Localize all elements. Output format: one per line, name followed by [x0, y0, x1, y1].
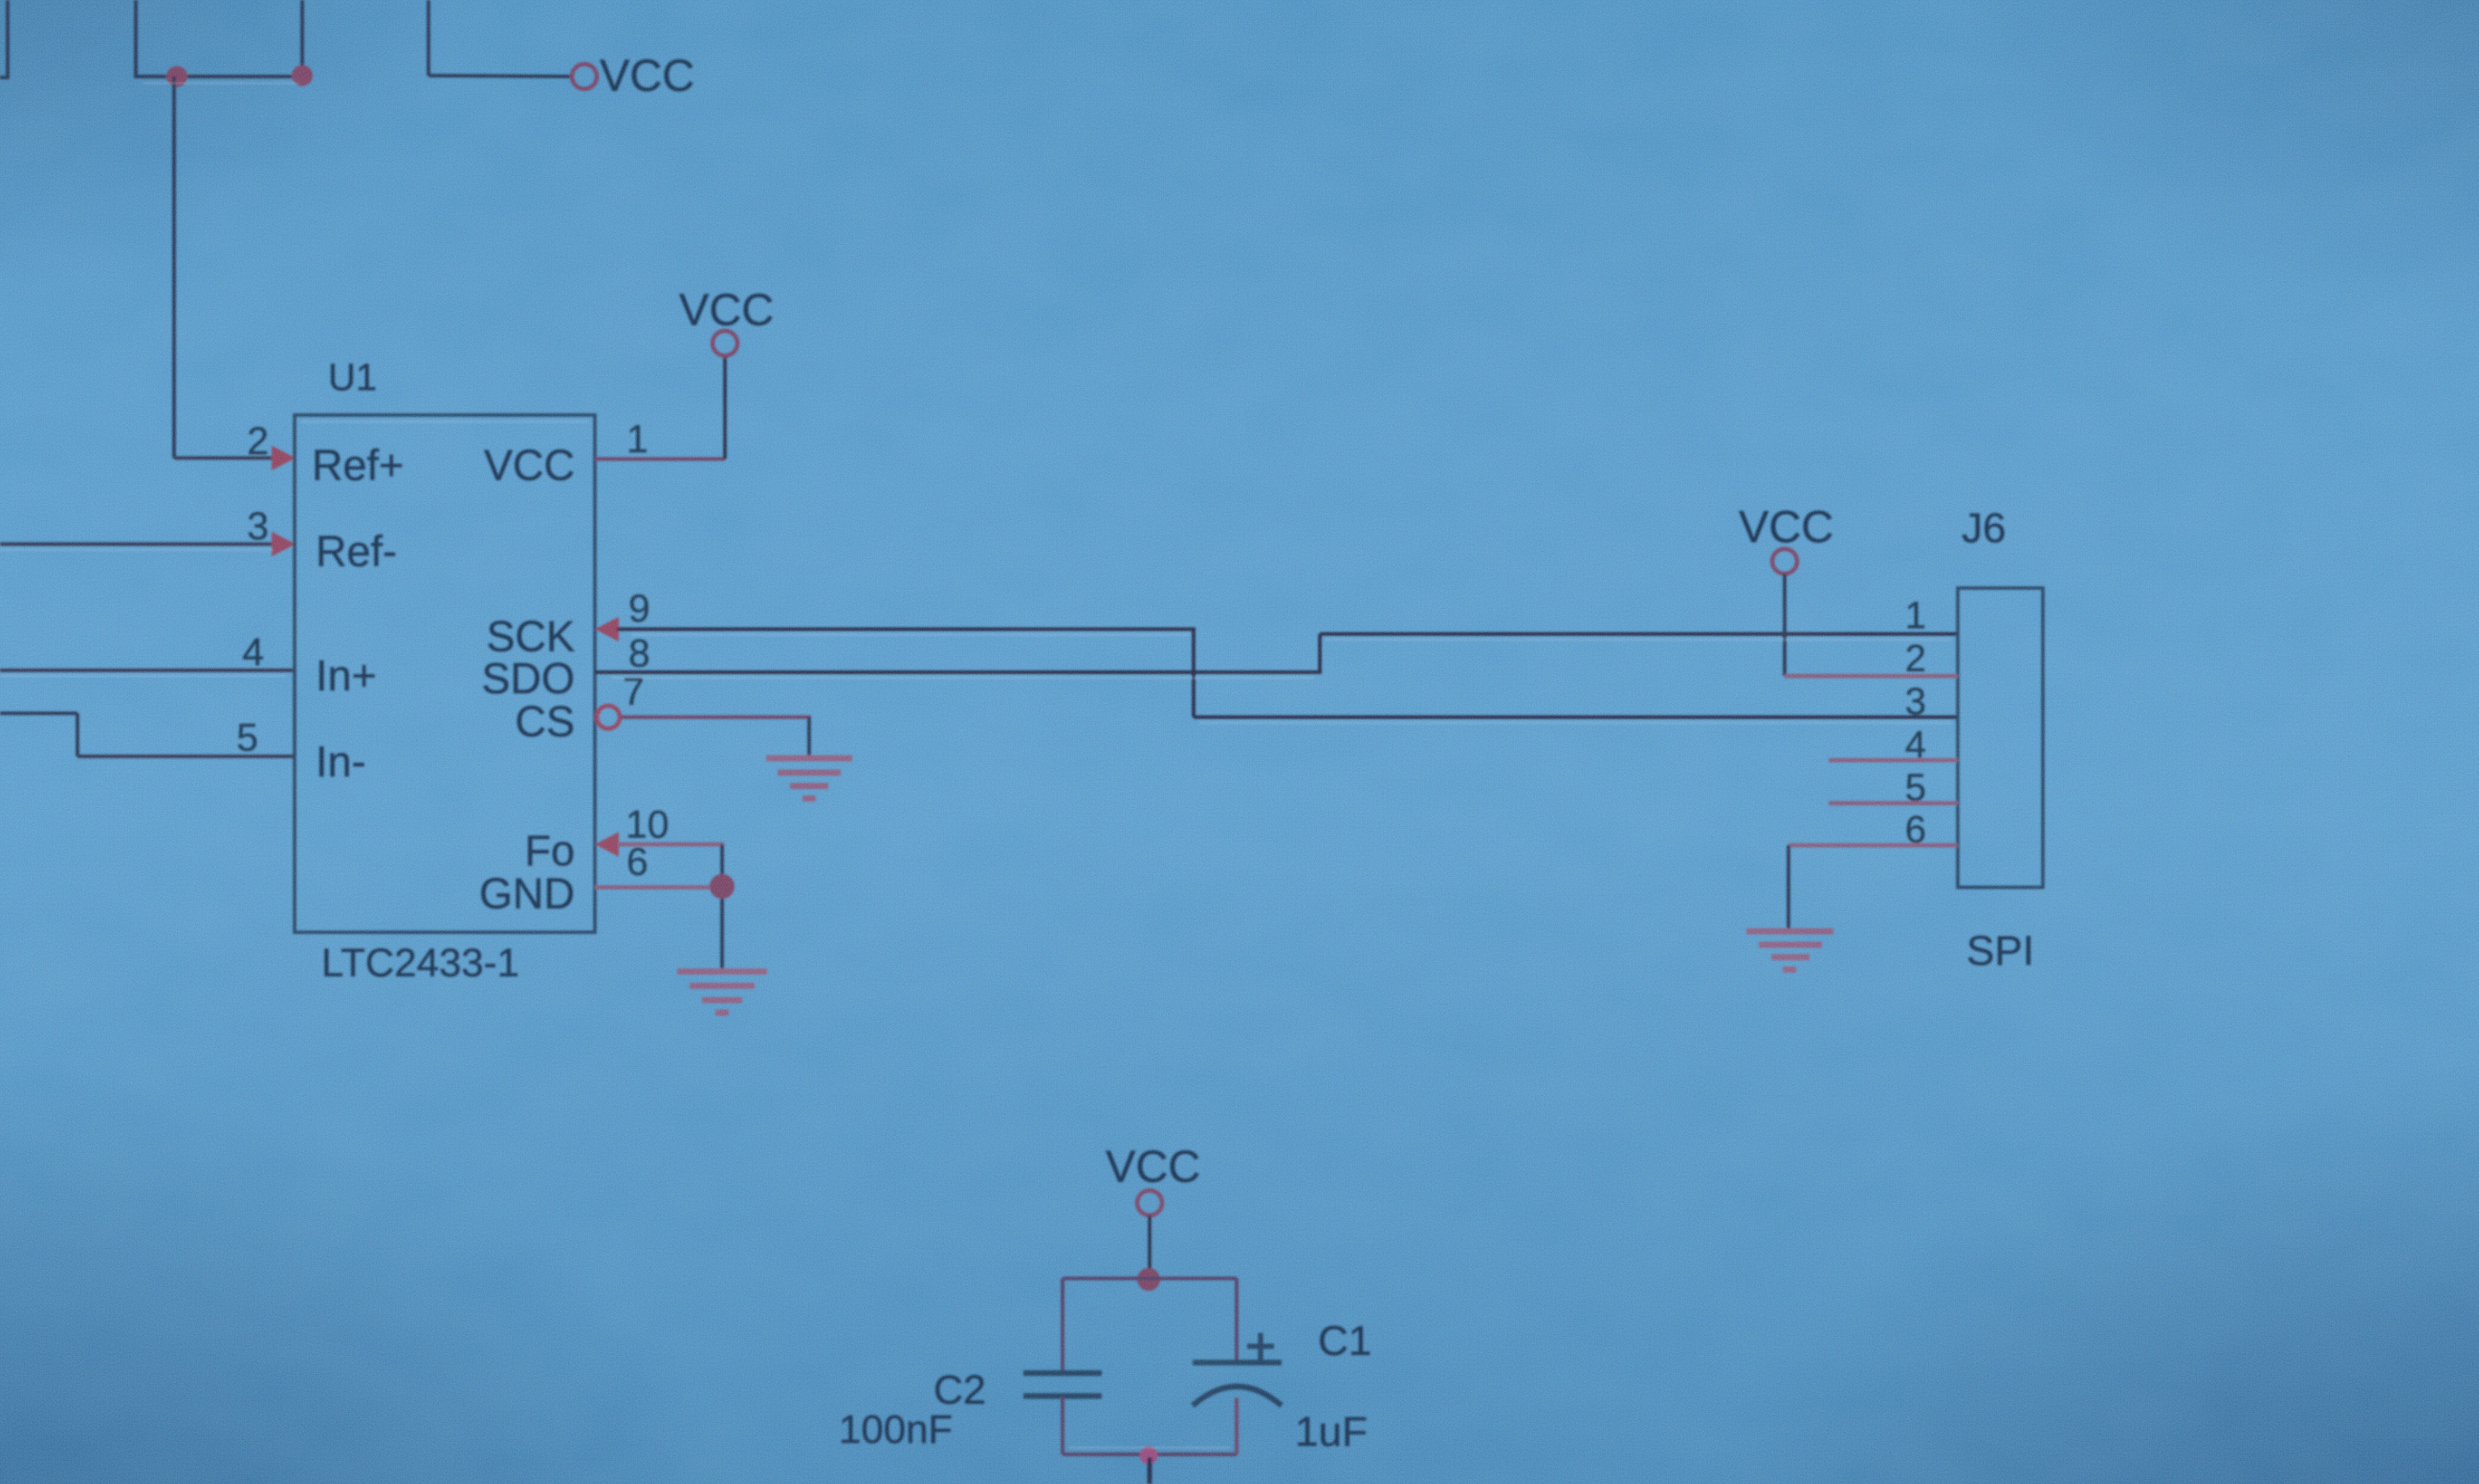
- plus sign of C1: [1247, 1333, 1274, 1360]
- wire: SCK net vertical jog: [1192, 629, 1196, 717]
- wire: stub down from bottom rail: [1148, 1457, 1152, 1484]
- pin arrow into Fo: [595, 832, 619, 857]
- wire: J6 pin 5 stub: [1829, 801, 1958, 806]
- wire: top-left net, right vertical: [300, 0, 304, 76]
- wire: J6 pin 6 stub to ground: [1788, 843, 1958, 848]
- wire: In- horizontal into pin 5: [77, 754, 295, 758]
- power symbol VCC decoupling: [1137, 1190, 1162, 1215]
- wire: C2 top lead: [1061, 1278, 1064, 1373]
- wire: VCC vertical at J6: [1783, 574, 1787, 676]
- wire: into pin 3 Ref- from left edge: [0, 542, 279, 546]
- wire: In- vertical jog: [76, 713, 79, 756]
- wire: SDO net to J6 pin 1: [1320, 632, 1958, 636]
- ground symbol under U1: [677, 971, 767, 1013]
- pin arrow into Ref-: [272, 532, 296, 556]
- wire: into pin 4 In+ from left edge: [0, 668, 295, 672]
- wire ghost highlights (photo chromatic fringe): [0, 83, 1951, 1448]
- ground symbol at CS: [766, 758, 852, 798]
- wire: C1 top lead: [1235, 1278, 1239, 1363]
- junction dot on top-left net: [166, 66, 187, 87]
- capacitor C1 positive plate: [1193, 1360, 1282, 1365]
- power symbol VCC at J6: [1772, 549, 1797, 574]
- power symbol VCC top, open circle: [572, 64, 597, 89]
- wire: top VCC branch horizontal: [428, 76, 571, 76]
- pin arrow into SCK: [595, 617, 619, 642]
- wire: SCK net to J6 pin 3: [1194, 715, 1958, 719]
- capacitor C2 bottom plate: [1023, 1393, 1102, 1399]
- junction dot on top rail: [1137, 1268, 1160, 1291]
- wire: decoupling top rail: [1063, 1277, 1237, 1280]
- junction dot Fo GND: [710, 874, 735, 899]
- pin bubble on CS active-low: [597, 706, 620, 729]
- capacitor C1 curved plate: [1193, 1386, 1282, 1406]
- wire: In- horizontal from left edge: [0, 711, 77, 715]
- wire: SDO net from U1: [595, 670, 1322, 674]
- wire: decoupling bottom rail: [1063, 1452, 1237, 1456]
- wire: CS ground vertical: [807, 717, 811, 758]
- wire: CS stub to ground: [621, 715, 811, 719]
- wire: Fo and GND vertical to ground: [720, 844, 724, 971]
- wire: top VCC branch vertical: [427, 0, 430, 76]
- wire: top-left net, left vertical: [134, 0, 138, 76]
- junction dot on bottom rail: [1140, 1447, 1158, 1465]
- wire: Fo stub: [617, 842, 724, 847]
- wire: J6 pin 4 stub: [1829, 758, 1958, 763]
- wire: pin 1 VCC stub: [595, 457, 725, 461]
- ground symbol at J6: [1746, 931, 1833, 970]
- wire: top-left L corner to page edge: [0, 0, 8, 77]
- wire: J6 pin 2 stub from VCC: [1785, 674, 1958, 679]
- junction dot at top-left net corner: [292, 65, 313, 86]
- wire: SDO net vertical jog: [1318, 634, 1322, 672]
- IC U1 body: [295, 415, 595, 932]
- wire: C1 bottom lead: [1235, 1398, 1239, 1454]
- power symbol VCC above U1: [713, 331, 737, 356]
- wire: VCC down to top rail: [1148, 1215, 1152, 1279]
- wire: GND pin stub: [595, 885, 724, 890]
- wire: J6 ground vertical: [1787, 845, 1790, 931]
- wire: top-left net, horizontal segment: [134, 75, 304, 78]
- wire: SCK net from U1: [617, 627, 1196, 631]
- wire: horizontal into pin 2 Ref+: [174, 456, 279, 460]
- wire: VCC vertical above U1: [723, 356, 727, 459]
- wire: C2 bottom lead: [1061, 1396, 1064, 1454]
- connector J6 body: [1958, 588, 2043, 887]
- capacitor C2 top plate: [1023, 1370, 1102, 1376]
- wire: vertical drop toward Ref+: [172, 76, 176, 458]
- pin arrow into Ref+: [272, 446, 296, 470]
